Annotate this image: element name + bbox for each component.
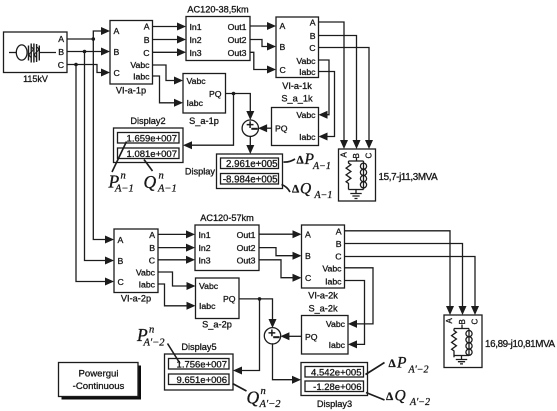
svg-text:B: B xyxy=(144,35,150,45)
wire VI-a-2p C to In3 xyxy=(158,256,195,264)
source 115kV xyxy=(4,32,68,84)
wire VI-a-2p B to In2 xyxy=(158,244,195,252)
svg-text:Iabc: Iabc xyxy=(133,71,150,81)
svg-text:Out3: Out3 xyxy=(237,255,256,265)
label P n A-1 xyxy=(108,171,134,195)
block Display xyxy=(185,154,283,189)
svg-text:1.756e+007: 1.756e+007 xyxy=(177,359,227,370)
svg-text:Δ: Δ xyxy=(297,155,305,167)
wire VI-a-1k B to load1 B xyxy=(319,36,361,150)
svg-text:S_a-2p: S_a-2p xyxy=(202,320,232,330)
svg-text:A: A xyxy=(118,235,124,245)
wire PQ junction to Display2 xyxy=(183,94,234,150)
wire A branch down to VI-a-2p A xyxy=(93,39,114,244)
wire S_a-2p PQ to sum2 xyxy=(239,299,277,328)
svg-text:In3: In3 xyxy=(199,255,211,265)
svg-text:PQ: PQ xyxy=(209,89,222,99)
wire source A to VI-a-1p A xyxy=(67,27,110,39)
callout line Q n A'-2 xyxy=(233,384,247,392)
wire VI-a-2k A to load2 A xyxy=(345,231,455,315)
svg-text:B: B xyxy=(352,153,361,158)
block AC120-38,5km xyxy=(186,5,250,61)
svg-text:n: n xyxy=(149,325,154,336)
block VI-a-2k xyxy=(302,225,345,301)
svg-text:Vabc: Vabc xyxy=(296,56,316,66)
wire VI-a-1p A to In1 xyxy=(153,23,187,31)
block S_a-2p xyxy=(196,278,240,330)
wire Out1 to VI-a-2k A xyxy=(259,230,302,238)
svg-text:4.542e+005: 4.542e+005 xyxy=(311,367,361,378)
svg-text:n: n xyxy=(261,386,266,397)
label Q n A'-2 xyxy=(247,386,282,410)
svg-text:2.961e+005: 2.961e+005 xyxy=(226,159,277,170)
svg-text:Vabc: Vabc xyxy=(199,281,219,291)
block S_a-2k xyxy=(302,304,349,355)
op sum1 xyxy=(242,120,258,136)
svg-text:Display3: Display3 xyxy=(317,399,352,409)
svg-text:Out2: Out2 xyxy=(228,35,247,45)
svg-text:B: B xyxy=(280,42,286,52)
callout line P n A'-2 xyxy=(168,344,181,364)
svg-text:B: B xyxy=(305,251,311,261)
svg-text:n: n xyxy=(121,171,126,182)
svg-text:Out1: Out1 xyxy=(237,230,256,240)
wire Out3 to VI-a-2k C xyxy=(259,260,302,282)
svg-text:C: C xyxy=(149,256,155,266)
svg-text:C: C xyxy=(471,319,480,325)
svg-text:Iabc: Iabc xyxy=(139,279,156,289)
svg-text:Δ: Δ xyxy=(292,184,300,196)
wire VI-a-1k C to load1 C xyxy=(319,48,374,150)
svg-text:A′−2: A′−2 xyxy=(143,338,166,349)
svg-text:Q: Q xyxy=(395,388,406,405)
svg-text:C: C xyxy=(280,65,286,75)
node PQ2 junction xyxy=(258,297,262,301)
svg-text:-1.28e+006: -1.28e+006 xyxy=(313,382,361,393)
wire VI-a-2k Vabc to S_a-2k Vabc xyxy=(345,268,374,328)
svg-text:15,7-j11,3MVA: 15,7-j11,3MVA xyxy=(379,172,439,183)
svg-text:S_a-1p: S_a-1p xyxy=(189,116,219,126)
svg-text:Q: Q xyxy=(300,181,311,198)
svg-text:S_a_1k: S_a_1k xyxy=(281,94,313,104)
svg-text:In1: In1 xyxy=(199,230,211,240)
label dP A'-2 xyxy=(389,355,429,376)
svg-text:A: A xyxy=(305,230,311,240)
label dQ A'-2 xyxy=(386,388,430,409)
svg-text:Display: Display xyxy=(185,167,216,177)
wire source C to VI-a-1p C xyxy=(67,65,110,77)
wire VI-a-1p C to In3 xyxy=(153,48,187,56)
wire Out2 to VI-a-2k B xyxy=(259,248,302,260)
block AC120-57km xyxy=(195,213,259,271)
wire VI-a-1p Iabc to S_a-1p Iabc xyxy=(153,76,184,107)
svg-text:In3: In3 xyxy=(190,48,202,58)
svg-text:A: A xyxy=(58,34,64,44)
label dQ A-1 xyxy=(292,181,332,202)
svg-text:Vabc: Vabc xyxy=(187,76,207,86)
wire PQ2 junction to Display5 xyxy=(233,299,260,375)
svg-text:In2: In2 xyxy=(199,243,211,253)
svg-text:Display2: Display2 xyxy=(130,116,165,126)
svg-text:Vabc: Vabc xyxy=(326,319,346,329)
block S_a_1k xyxy=(272,94,319,146)
svg-text:115kV: 115kV xyxy=(23,74,48,84)
wire VI-a-1k A to load1 A xyxy=(319,22,349,149)
svg-text:A: A xyxy=(144,21,150,31)
svg-text:Iabc: Iabc xyxy=(299,132,316,142)
node PQ junction xyxy=(232,92,236,96)
svg-text:B: B xyxy=(336,239,342,249)
label P n A'-2 xyxy=(136,325,165,349)
svg-text:VI-a-1k: VI-a-1k xyxy=(282,81,312,91)
wire Out3 to VI-a-1k C xyxy=(250,52,276,73)
node B junction xyxy=(83,50,87,54)
wire sum1 to Display xyxy=(246,136,254,154)
wire VI-a-1p Vabc to S_a-1p Vabc xyxy=(153,65,184,85)
svg-text:Out1: Out1 xyxy=(228,22,247,32)
svg-text:C: C xyxy=(114,68,120,78)
wire Out2 to VI-a-1k B xyxy=(250,40,276,51)
svg-text:B: B xyxy=(114,47,120,57)
block VI-a-1k xyxy=(276,17,319,91)
svg-text:Δ: Δ xyxy=(386,391,394,403)
svg-text:C: C xyxy=(365,153,374,159)
wire source B to VI-a-1p B xyxy=(67,48,110,56)
svg-text:C: C xyxy=(335,251,341,261)
label dP A-1 xyxy=(297,151,331,172)
block S_a-1p xyxy=(183,74,226,126)
svg-text:VI-a-1p: VI-a-1p xyxy=(116,86,146,96)
svg-text:-8.984e+005: -8.984e+005 xyxy=(223,174,278,185)
svg-text:A: A xyxy=(280,21,286,31)
wire Out1 to VI-a-1k A xyxy=(250,22,276,30)
callout line dQ A'-2 xyxy=(366,393,385,401)
svg-text:B: B xyxy=(149,243,155,253)
block Powergui xyxy=(59,363,142,400)
svg-text:Vabc: Vabc xyxy=(296,110,316,120)
callout line dP A'-2 xyxy=(366,363,385,375)
block VI-a-1p xyxy=(110,21,153,96)
svg-text:B: B xyxy=(458,319,467,324)
svg-text:VI-a-2p: VI-a-2p xyxy=(121,294,151,304)
svg-text:A−1: A−1 xyxy=(314,190,333,201)
svg-text:C: C xyxy=(143,48,149,58)
svg-text:AC120-57km: AC120-57km xyxy=(200,213,254,223)
svg-text:A′−2: A′−2 xyxy=(259,399,282,410)
svg-text:PQ: PQ xyxy=(223,294,236,304)
wire sum2 to Display3 xyxy=(273,343,302,383)
wire VI-a-1k Iabc to S_a_1k Iabc xyxy=(319,72,335,141)
svg-text:A′−2: A′−2 xyxy=(408,365,429,376)
svg-text:A′−2: A′−2 xyxy=(409,397,430,408)
wire VI-a-2p Vabc to S_a-2p Vabc xyxy=(158,272,196,290)
block Display5 xyxy=(165,342,234,390)
svg-text:B: B xyxy=(310,31,316,41)
svg-text:PQ: PQ xyxy=(275,124,288,134)
svg-text:Display5: Display5 xyxy=(181,342,216,352)
svg-text:Iabc: Iabc xyxy=(329,340,346,350)
svg-text:A: A xyxy=(340,152,349,158)
node A junction xyxy=(92,37,96,41)
svg-text:Iabc: Iabc xyxy=(199,301,216,311)
wire VI-a-2k C to load2 C xyxy=(345,257,480,316)
wire VI-a-1p B to In2 xyxy=(153,36,187,44)
svg-text:C: C xyxy=(58,60,64,70)
callout line Q n A-1 xyxy=(144,160,153,172)
svg-text:S_a-2k: S_a-2k xyxy=(308,304,338,314)
op sum2 xyxy=(264,328,280,344)
svg-text:P: P xyxy=(396,355,407,372)
wire VI-a-2k Iabc to S_a-2k Iabc xyxy=(345,281,365,349)
wire VI-a-2k B to load2 B xyxy=(345,244,467,316)
svg-text:Q: Q xyxy=(144,172,157,192)
wire S_a-2k PQ to sum2 xyxy=(280,332,301,340)
svg-text:In1: In1 xyxy=(190,22,202,32)
svg-text:Vabc: Vabc xyxy=(130,60,150,70)
wire B branch down to VI-a-2p B xyxy=(85,52,115,265)
svg-text:In2: In2 xyxy=(190,35,202,45)
svg-text:1.081e+007: 1.081e+007 xyxy=(127,149,177,160)
load2 16,89-j10,81MVA xyxy=(444,315,556,368)
svg-text:AC120-38,5km: AC120-38,5km xyxy=(187,5,249,15)
svg-text:A−1: A−1 xyxy=(312,161,331,172)
callout line P n A-1 xyxy=(112,142,127,173)
wire S_a_1k PQ to sum1 xyxy=(258,124,271,132)
callout line dP A-1 xyxy=(284,159,296,162)
svg-text:A: A xyxy=(445,318,454,324)
block Display2 xyxy=(114,116,184,163)
svg-text:16,89-j10,81MVA: 16,89-j10,81MVA xyxy=(485,339,556,350)
svg-text:Vabc: Vabc xyxy=(136,267,156,277)
svg-text:9.651e+006: 9.651e+006 xyxy=(177,375,227,386)
svg-text:-Continuous: -Continuous xyxy=(73,381,125,392)
svg-text:B: B xyxy=(118,256,124,266)
svg-text:Q: Q xyxy=(247,388,260,408)
svg-text:A−1: A−1 xyxy=(114,184,134,195)
svg-text:Iabc: Iabc xyxy=(299,67,316,77)
svg-text:Out3: Out3 xyxy=(228,48,247,58)
svg-text:n: n xyxy=(159,171,164,182)
wire VI-a-2p A to In1 xyxy=(158,230,195,238)
svg-text:VI-a-2k: VI-a-2k xyxy=(308,291,338,301)
label Q n A-1 xyxy=(144,171,177,195)
wire VI-a-2p Iabc to S_a-2p Iabc xyxy=(158,284,196,310)
svg-text:Out2: Out2 xyxy=(237,243,256,253)
svg-text:Iabc: Iabc xyxy=(325,276,342,286)
svg-text:B: B xyxy=(58,47,64,57)
svg-text:Iabc: Iabc xyxy=(187,98,204,108)
svg-text:A: A xyxy=(114,26,120,36)
svg-text:A: A xyxy=(149,230,155,240)
block Display3 xyxy=(301,363,368,410)
svg-text:Powergui: Powergui xyxy=(79,369,119,380)
callout line dQ A-1 xyxy=(282,185,291,193)
svg-text:PQ: PQ xyxy=(305,332,318,342)
node C junction xyxy=(74,63,78,67)
svg-text:A: A xyxy=(336,226,342,236)
svg-text:Vabc: Vabc xyxy=(322,263,342,273)
svg-text:Δ: Δ xyxy=(389,358,397,370)
svg-text:C: C xyxy=(305,273,311,283)
load1 15,7-j11,3MVA xyxy=(339,149,439,201)
svg-text:A−1: A−1 xyxy=(157,184,177,195)
svg-text:C: C xyxy=(118,277,124,287)
svg-text:C: C xyxy=(309,43,315,53)
block VI-a-2p xyxy=(114,229,158,304)
wire VI-a-1k Vabc to S_a_1k Vabc xyxy=(319,60,330,119)
wire S_a-1p PQ to sum1 xyxy=(226,94,255,121)
svg-text:A: A xyxy=(310,17,316,27)
wire C branch down to VI-a-2p C xyxy=(76,65,114,286)
svg-text:1.659e+007: 1.659e+007 xyxy=(127,133,177,144)
